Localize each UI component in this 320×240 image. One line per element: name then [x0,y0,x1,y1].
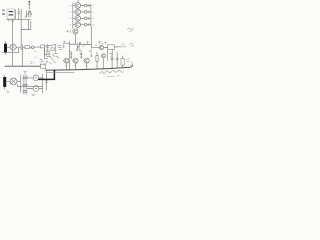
node corner note [128,28,134,31]
node G mark [127,59,133,64]
resistor R4 [81,23,91,26]
capacitor C1 [18,9,20,20]
battery B2 [3,75,9,93]
ground bottom [32,94,35,95]
wire segment to rail [63,42,70,44]
transistor V8 [83,58,89,63]
capacitor C2 variable [25,11,31,18]
wire main ground bus [46,65,132,71]
wire base feed V8 [91,49,92,57]
transistor V2 [75,9,81,15]
resistor R11 [121,56,124,68]
resistor R12 bus end [41,64,46,68]
transistor V5a [73,29,78,34]
node label a [77,1,79,3]
wire drops right [108,49,118,60]
ground [24,72,27,75]
node pin marks left [70,5,72,25]
transistor V5 [99,46,103,50]
capacitor C3 [20,45,25,50]
wire drop B [20,10,22,45]
node signature [100,70,124,76]
transistor V5b [102,54,106,69]
battery B1 [4,41,7,54]
wire chain spine [77,2,79,28]
transistor V1 [75,3,81,9]
node marks mid [63,41,89,49]
resistor R2 [81,11,91,14]
wire bottom step [18,84,43,86]
resistor R10 [96,52,98,69]
wire under lamp [2,48,18,52]
transistor V6 [63,58,69,63]
node labels row [65,50,91,67]
component cluster K1 [35,44,62,64]
node pin stubs [9,20,14,22]
node pin ticks right [93,5,94,26]
node E [31,46,40,49]
potentiometer RP1 [69,42,91,51]
resistor R3 [81,17,91,20]
resistor R5 [25,46,31,49]
transistor V3 [75,15,81,21]
capacitor C6 [116,55,118,68]
transistor V9 [6,78,20,85]
relay K2 [104,45,120,50]
lamp H1 [7,44,20,50]
wire left ground bus [5,65,41,67]
node input terminals J1 [2,10,5,15]
jack J3 [27,86,42,92]
node ANT terminal [28,1,30,10]
resistor R8 [70,52,72,58]
capacitor C2b [30,12,32,18]
wire drop A [12,20,14,66]
capacitor C8 [45,70,47,90]
wire drop C [21,20,31,30]
wire cluster bottom [7,19,31,21]
wire center rail [68,42,70,70]
wire thick supply L [39,70,55,79]
transistor V4 [75,22,81,28]
wire vertical bus L [20,75,22,92]
wire drop C3 [21,50,23,66]
wire emitter stubs [66,63,86,70]
transistor V7 [72,58,78,63]
node base marks [67,30,71,33]
wire vertical J rail [41,74,43,93]
jack J2 [27,75,42,81]
capacitor C7 bank [23,75,28,94]
wire V5a emitter drop [69,34,75,44]
resistor R1 [81,4,91,7]
wire chain right rail [90,4,92,26]
wire rail drop right [90,26,92,44]
wire stub lower [47,71,74,73]
wire drop center [43,48,45,59]
resistor R6 [41,45,57,48]
node marks V5b [110,53,113,58]
wire chain left rail [73,4,75,29]
node text marks left-mid [30,57,44,63]
wire to output stage [91,44,99,47]
capacitor C5 [111,55,113,69]
resistor R9 [80,52,82,58]
transformer T1 [7,9,16,19]
node F curls [95,41,134,47]
wire bus step [45,68,47,70]
